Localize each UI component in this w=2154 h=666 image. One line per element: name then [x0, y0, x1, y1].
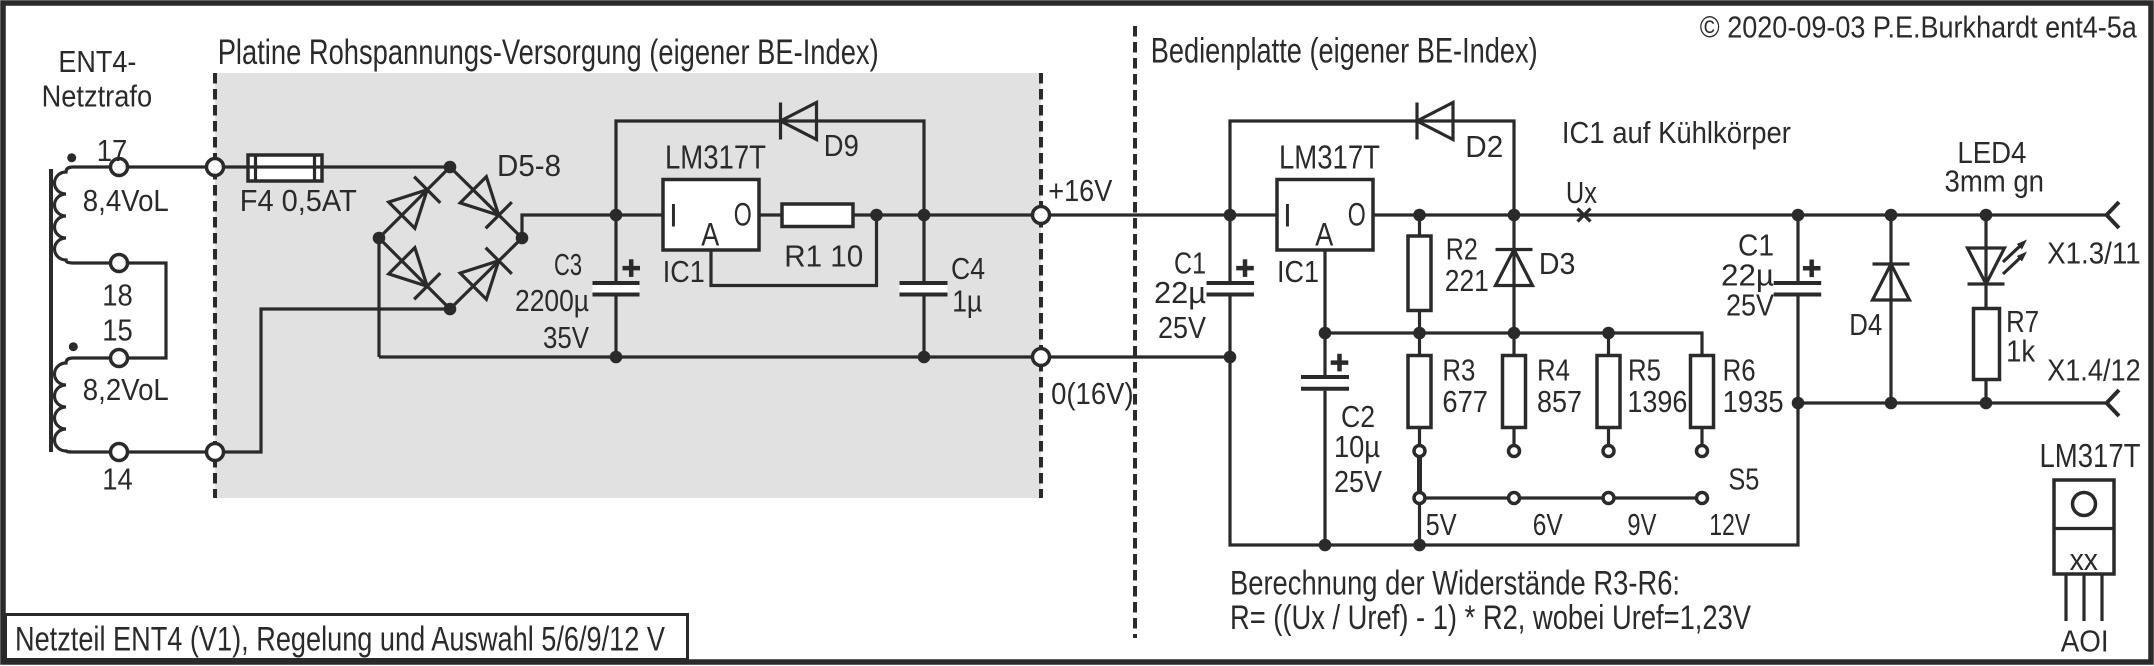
svg-text:R6: R6: [1723, 353, 1756, 388]
switch pole contact 5V: [1414, 493, 1425, 504]
junction D4 top: [1885, 209, 1898, 222]
pin 17 terminal: [111, 159, 128, 176]
svg-text:D4: D4: [1849, 307, 1882, 342]
svg-text:Netzteil ENT4 (V1), Regelung u: Netzteil ENT4 (V1), Regelung und Auswahl…: [15, 621, 665, 659]
LM317T package outline: [2054, 480, 2114, 574]
switch pole contact 6V: [1509, 493, 1520, 504]
shaded board region Platine: [215, 73, 1041, 498]
svg-text:LM317T: LM317T: [665, 139, 766, 176]
junction C1 output bottom: [1792, 397, 1805, 410]
svg-text:8,2VoL: 8,2VoL: [83, 372, 169, 407]
svg-text:3mm gn: 3mm gn: [1945, 164, 2045, 199]
resistor R5: [1597, 333, 1620, 451]
package pin A: [2064, 574, 2067, 621]
switch S5 pole line: [1420, 496, 1703, 499]
D2 protection loop wire: [1230, 121, 1514, 215]
bridge diode top-right: [460, 177, 512, 229]
output rail of regulator 2: [1373, 213, 2107, 216]
svg-text:18: 18: [102, 278, 133, 313]
junction D4 bottom: [1885, 397, 1898, 410]
wire fuse to bridge: [322, 165, 450, 168]
svg-text:D3: D3: [1539, 246, 1576, 281]
pin 15 terminal: [111, 350, 128, 367]
svg-text:LM317T: LM317T: [2040, 437, 2141, 474]
0V terminal: [1033, 349, 1050, 366]
transformer winding 8,4V: [55, 167, 120, 263]
resistor R2: [1408, 215, 1431, 333]
pin 18 terminal: [111, 255, 128, 272]
svg-text:I: I: [1283, 198, 1292, 234]
svg-text:8,4VoL: 8,4VoL: [83, 183, 169, 218]
junction C4 top: [918, 209, 931, 222]
bridge corner junctions: [444, 161, 457, 174]
switch contact R6: [1697, 446, 1708, 457]
svg-text:5V: 5V: [1426, 507, 1457, 542]
svg-text:Ux: Ux: [1566, 175, 1597, 210]
resistor R3: [1408, 333, 1431, 451]
svg-text:Berechnung der Widerstände R3-: Berechnung der Widerstände R3-R6:: [1230, 565, 1680, 603]
junction C3 bottom: [610, 351, 623, 364]
0V rail into Bedienplatte: [1048, 355, 1230, 358]
svg-text:X1.3/11: X1.3/11: [2047, 236, 2141, 271]
board edge terminal top: [207, 159, 224, 176]
wire pin14 to board edge: [119, 309, 450, 452]
transformer winding 8,2V: [55, 358, 120, 452]
diode D3: [1496, 215, 1533, 333]
junction C1 input bottom: [1224, 351, 1237, 364]
svg-text:1k: 1k: [2006, 334, 2035, 369]
junction C4 bottom: [918, 351, 931, 364]
junction LED top: [1980, 209, 1993, 222]
svg-text:221: 221: [1445, 263, 1489, 298]
transformer core: [49, 169, 53, 452]
junction adjust feedback: [870, 209, 883, 222]
wire jumper pin18 to pin15: [119, 263, 166, 358]
svg-text:D9: D9: [824, 128, 859, 163]
svg-text:IC1: IC1: [1277, 254, 1319, 289]
fuse F4: [248, 155, 322, 181]
svg-text:O: O: [1348, 197, 1366, 233]
svg-text:D2: D2: [1465, 129, 1503, 164]
svg-text:0(16V): 0(16V): [1051, 376, 1134, 411]
junction C1 output top: [1792, 209, 1805, 222]
resistor R4: [1503, 333, 1526, 451]
svg-text:1396: 1396: [1627, 384, 1687, 419]
svg-text:O: O: [734, 197, 752, 233]
regulator IC1 LM317T box: [663, 180, 759, 251]
node Ux marker: [1578, 209, 1591, 222]
switch pole contact 9V: [1603, 493, 1614, 504]
switch pole contact 12V: [1697, 493, 1708, 504]
svg-text:Netztrafo: Netztrafo: [42, 79, 153, 114]
bridge rectifier D5-8 diamond: [379, 167, 522, 309]
svg-text:9V: 9V: [1627, 507, 1656, 542]
bridge diode bottom-right: [460, 248, 512, 300]
junction C2 bottom: [1319, 539, 1332, 552]
pin 14 terminal: [111, 444, 128, 461]
title box: [6, 615, 688, 660]
svg-text:X1.4/12: X1.4/12: [2047, 353, 2141, 388]
svg-text:17: 17: [97, 133, 128, 168]
svg-text:6V: 6V: [1533, 507, 1563, 542]
polarity dot winding 2: [69, 342, 78, 351]
0V rail Platine: [379, 355, 1041, 358]
junction R7 bottom: [1980, 397, 1993, 410]
svg-text:I: I: [669, 198, 678, 234]
resistor R6: [1691, 356, 1714, 452]
bottom return wire: [1230, 357, 1798, 545]
wire R1 to +16V terminal: [853, 213, 1041, 216]
wire bridge minus down: [377, 238, 380, 357]
terminal X1.4/12 chevron: [2107, 390, 2119, 416]
svg-text:2200µ: 2200µ: [515, 283, 589, 318]
svg-text:25V: 25V: [1334, 464, 1382, 499]
junction C1 input top: [1224, 209, 1237, 222]
svg-text:14: 14: [102, 462, 133, 497]
regulator IC1 (Bedienplatte) LM317T box: [1277, 180, 1373, 251]
svg-text:R3: R3: [1442, 353, 1475, 388]
svg-text:12V: 12V: [1709, 507, 1750, 542]
junction adjust node: [1319, 327, 1332, 340]
svg-text:S5: S5: [1728, 462, 1759, 497]
svg-text:A: A: [1315, 217, 1334, 253]
switch contact R5: [1603, 446, 1614, 457]
junction R2 top: [1413, 209, 1426, 222]
capacitor C4: [900, 215, 948, 357]
board edge terminal bottom: [207, 444, 224, 461]
svg-text:10µ: 10µ: [1334, 429, 1380, 464]
svg-text:1µ: 1µ: [952, 284, 982, 319]
svg-text:A: A: [701, 217, 720, 253]
diode D2: [1417, 103, 1453, 140]
D9 protection loop wire: [616, 121, 924, 215]
svg-text:IC1: IC1: [663, 254, 705, 289]
capacitor C1 output: [1774, 215, 1822, 403]
svg-text:R= ((Ux / Uref) - 1) * R2, wob: R= ((Ux / Uref) - 1) * R2, wobei Uref=1,…: [1230, 599, 1751, 637]
junction D3 top: [1508, 209, 1521, 222]
dashed boundary line left (Platine): [213, 73, 217, 498]
capacitor C2: [1301, 333, 1349, 545]
resistor R7: [1974, 309, 2000, 404]
svg-text:C4: C4: [951, 251, 985, 286]
svg-text:25V: 25V: [1726, 288, 1774, 323]
junction D3 bottom: [1508, 327, 1521, 340]
capacitor C1 input: [1207, 215, 1255, 357]
svg-text:+16V: +16V: [1048, 173, 1112, 208]
+16V rail into Bedienplatte: [1048, 213, 1277, 216]
svg-text:R4: R4: [1537, 353, 1570, 388]
svg-text:857: 857: [1537, 384, 1582, 419]
svg-text:R1 10: R1 10: [784, 239, 863, 274]
svg-text:Bedienplatte (eigener BE-Index: Bedienplatte (eigener BE-Index): [1151, 32, 1538, 71]
svg-text:22µ: 22µ: [1154, 275, 1206, 310]
svg-text:ENT4-: ENT4-: [58, 44, 136, 79]
LED4: [1968, 215, 2028, 309]
svg-text:D5-8: D5-8: [497, 148, 561, 183]
polarity dot winding 1: [67, 153, 76, 162]
svg-text:C3: C3: [554, 247, 582, 282]
wire O pin to R1: [759, 213, 782, 216]
junction node bridge out: [610, 209, 623, 222]
resistor R1: [782, 204, 853, 227]
wire pole to bottom rail: [1418, 498, 1421, 545]
svg-text:1935: 1935: [1723, 384, 1784, 419]
+16V terminal: [1033, 207, 1050, 224]
terminal X1.3/11 chevron: [2107, 202, 2119, 228]
switch contact R4: [1509, 446, 1520, 457]
svg-text:IC1 auf Kühlkörper: IC1 auf Kühlkörper: [1562, 115, 1791, 150]
junction R5 top node: [1602, 327, 1615, 340]
svg-text:xx: xx: [2070, 542, 2099, 577]
svg-text:R5: R5: [1628, 353, 1661, 388]
diode D9: [781, 103, 817, 140]
adjust pin feedback wire: [711, 215, 877, 286]
switch S5 selected link under R3: [1417, 451, 1422, 498]
wire bridge plus output: [522, 215, 663, 238]
svg-text:© 2020-09-03 P.E.Burkhardt ent: © 2020-09-03 P.E.Burkhardt ent4-5a: [1700, 9, 2138, 44]
adjust node line: [1325, 333, 1702, 356]
adjust pin wire regulator 2: [1323, 250, 1326, 333]
svg-text:25V: 25V: [1158, 310, 1206, 345]
svg-text:677: 677: [1442, 384, 1488, 419]
svg-text:F4 0,5AT: F4 0,5AT: [240, 183, 357, 218]
switch contact R3: [1414, 446, 1425, 457]
svg-text:LM317T: LM317T: [1279, 139, 1380, 176]
svg-text:R2: R2: [1446, 232, 1478, 267]
package pin O: [2082, 574, 2085, 621]
svg-text:35V: 35V: [543, 320, 589, 355]
dashed boundary line Bedienplatte: [1133, 26, 1137, 638]
svg-text:Platine Rohspannungs-Versorgun: Platine Rohspannungs-Versorgung (eigener…: [218, 33, 879, 72]
junction R2 bottom: [1413, 327, 1426, 340]
diode D4: [1873, 215, 1910, 403]
svg-text:15: 15: [102, 313, 133, 348]
bridge diode top-left: [389, 177, 441, 229]
wire pin17 to board edge: [119, 165, 248, 168]
output 0V rail: [1798, 401, 2107, 404]
capacitor C3: [593, 215, 641, 357]
dashed boundary line right of Platine: [1039, 73, 1043, 498]
junction switch bottom: [1413, 539, 1426, 552]
package pin I: [2100, 574, 2103, 621]
svg-text:AOI: AOI: [2061, 624, 2109, 659]
bridge diode bottom-left: [389, 248, 441, 300]
